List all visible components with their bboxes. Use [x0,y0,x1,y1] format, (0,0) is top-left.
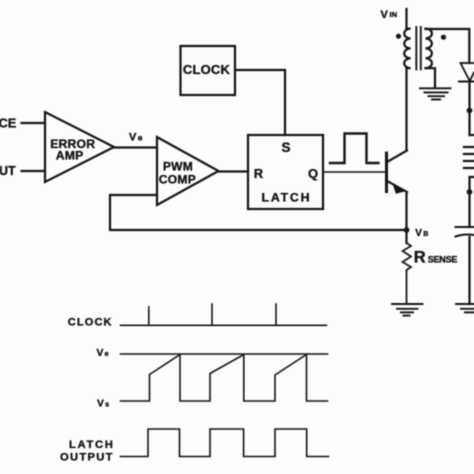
svg-text:CE: CE [0,115,17,130]
svg-text:R: R [414,249,426,267]
svg-text:V: V [415,228,422,239]
svg-text:CLOCK: CLOCK [68,317,113,329]
svg-text:LATCH: LATCH [69,439,115,451]
svg-text:LATCH: LATCH [262,190,312,204]
svg-text:UT: UT [0,164,16,178]
svg-text:s: s [105,399,109,408]
svg-text:V: V [129,131,137,143]
svg-text:S: S [281,140,290,155]
svg-text:COMP: COMP [159,172,196,186]
svg-text:AMP: AMP [56,148,84,162]
svg-text:CLOCK: CLOCK [183,62,231,77]
svg-text:IN: IN [390,10,398,19]
svg-text:V: V [381,9,389,21]
svg-text:OUTPUT: OUTPUT [60,452,114,464]
svg-text:e: e [138,132,143,142]
svg-text:V: V [97,348,104,359]
svg-text:R: R [254,166,264,181]
svg-text:Q: Q [308,166,318,181]
svg-text:SENSE: SENSE [428,255,458,265]
svg-text:V: V [97,398,104,409]
svg-text:B: B [423,231,428,238]
svg-text:e: e [105,349,109,358]
